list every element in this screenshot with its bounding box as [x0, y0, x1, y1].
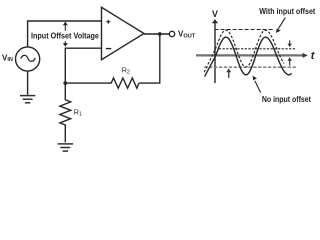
svg-text:Input Offset Voltage: Input Offset Voltage	[31, 31, 100, 41]
svg-text:V: V	[212, 9, 218, 19]
op-amp + pin mark	[106, 20, 110, 24]
annotation arrow up (to + wire)	[64, 24, 66, 31]
op-amp U1	[102, 7, 145, 59]
svg-text:t: t	[311, 50, 316, 62]
resistor R1	[60, 83, 71, 142]
pointer arrow from No label	[255, 81, 261, 93]
wire VIN bottom to ground	[27, 71, 29, 95]
op-amp - pin mark	[106, 48, 111, 50]
svg-text:R2: R2	[122, 65, 130, 75]
resistor R2	[65, 78, 139, 88]
output node dot	[158, 32, 162, 36]
feedback wire down from output node	[139, 34, 160, 83]
output wire	[144, 33, 169, 35]
ground under R1	[58, 144, 73, 151]
svg-text:VIN: VIN	[2, 53, 13, 63]
svg-text:VOUT: VOUT	[178, 29, 196, 39]
V axis arrowhead	[212, 19, 218, 23]
sine symbol inside VIN	[21, 55, 35, 61]
left small up arrow	[228, 72, 230, 78]
dashed envelope line (offset peak level)	[215, 29, 274, 31]
output terminal circle	[169, 31, 174, 36]
dashed sine (with input offset)	[204, 30, 284, 72]
solid sine (no input offset)	[205, 37, 292, 77]
t axis arrowhead	[303, 53, 308, 58]
right small up arrow	[289, 61, 291, 66]
dashed offset midline	[219, 48, 296, 50]
gray dashed trough line	[204, 66, 296, 68]
svg-text:No input offset: No input offset	[262, 94, 311, 104]
graph t axis	[196, 54, 305, 56]
annotation arrow down (to - wire)	[64, 41, 66, 43]
voltage source VIN	[16, 47, 40, 71]
graph V axis	[214, 22, 216, 84]
wire VIN top to op-amp + input	[28, 21, 102, 47]
pointer arrow from With label	[278, 18, 285, 29]
right small down arrow	[289, 40, 291, 44]
wire - input from R1/R2 node	[65, 48, 101, 83]
svg-text:R1: R1	[74, 107, 82, 117]
svg-text:With input offset: With input offset	[259, 7, 316, 17]
R1/R2 node dot	[63, 81, 67, 85]
ground under VIN	[20, 96, 35, 103]
